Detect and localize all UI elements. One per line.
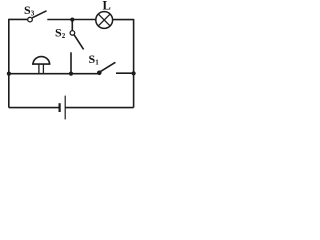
wire: top-left corner to S3 pivot	[9, 18, 28, 20]
wire: S1 fixed contact to right side	[116, 72, 134, 74]
lamp L cross line 2	[98, 14, 110, 26]
node J0 junction dot (middle wire meets left side)	[7, 72, 11, 76]
battery short plate (negative terminal)	[58, 103, 60, 112]
bell baseline	[32, 63, 50, 65]
switch S1 blade (open)	[100, 62, 115, 72]
wire: S2 upper lead	[71, 20, 73, 31]
wire: left vertical side (top corner to bottom corner)	[8, 19, 10, 108]
node J1 junction dot (top of S2 branch)	[70, 18, 74, 22]
svg-text:L: L	[103, 0, 111, 13]
wire: bottom right (battery long plate to corner)	[65, 107, 133, 109]
bell left leg	[38, 64, 40, 74]
wire: S3 fixed contact to lamp (through node J1)	[47, 19, 96, 21]
wire: right vertical side	[133, 19, 135, 108]
switch S3 blade (open)	[32, 11, 46, 18]
bell dome	[33, 57, 49, 64]
wire: middle horizontal (left side to S1 pivot)	[9, 73, 99, 75]
switch S3 pivot circle	[28, 17, 33, 22]
node J2 junction dot (bottom of S2 branch)	[69, 72, 73, 76]
node J3 junction dot (middle wire meets right side)	[132, 71, 136, 75]
lamp L cross line 1	[98, 14, 110, 26]
wire: S2 lower lead to middle wire	[70, 52, 72, 74]
lamp L circle	[96, 12, 113, 29]
battery long plate (positive terminal)	[64, 96, 66, 120]
switch S2 blade (open)	[74, 35, 84, 50]
bell right leg	[42, 64, 44, 74]
wire: bottom left (corner to battery short plate)	[9, 107, 59, 109]
switch S2 pivot circle	[70, 31, 75, 36]
wire: lamp to top-right corner	[113, 19, 134, 21]
switch S1 pivot dot	[97, 71, 102, 76]
